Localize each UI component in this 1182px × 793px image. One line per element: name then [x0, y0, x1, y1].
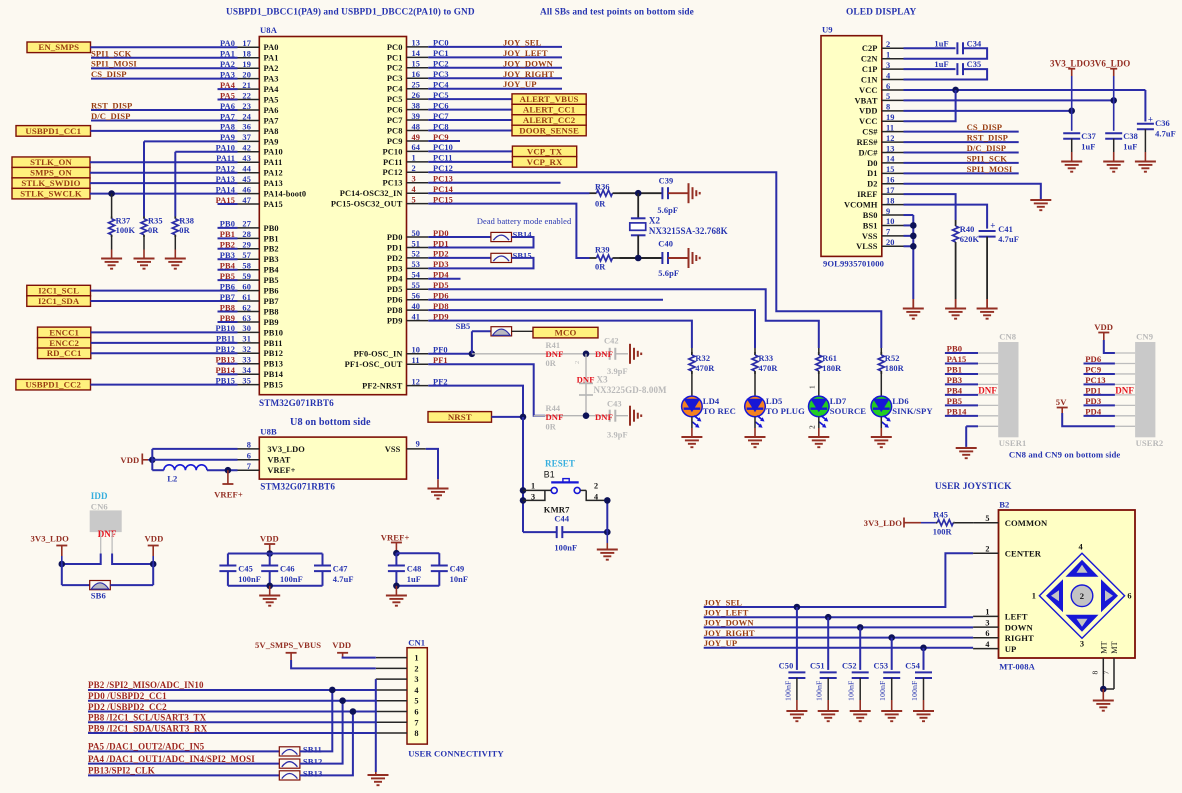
svg-text:48: 48 [412, 122, 421, 131]
svg-text:I2C1_SCL: I2C1_SCL [38, 286, 79, 296]
svg-text:SB6: SB6 [91, 591, 107, 601]
svg-text:6: 6 [414, 708, 418, 717]
svg-text:C35: C35 [967, 60, 982, 69]
svg-text:SB15: SB15 [513, 251, 532, 260]
svg-text:8: 8 [1091, 671, 1100, 675]
svg-text:OLED DISPLAY: OLED DISPLAY [846, 8, 917, 18]
svg-text:C39: C39 [659, 177, 674, 186]
svg-text:1: 1 [808, 385, 817, 389]
svg-text:63: 63 [242, 314, 251, 323]
svg-text:14: 14 [412, 49, 421, 58]
svg-text:5: 5 [886, 92, 890, 101]
svg-text:EN_SMPS: EN_SMPS [38, 42, 79, 52]
svg-text:11: 11 [886, 123, 894, 132]
svg-text:0R: 0R [595, 200, 606, 209]
svg-text:D1: D1 [867, 169, 877, 178]
svg-text:JOY_SEL: JOY_SEL [503, 37, 542, 47]
svg-text:LD4: LD4 [703, 396, 720, 406]
svg-text:PC3: PC3 [387, 74, 403, 83]
svg-text:COMMON: COMMON [1005, 518, 1048, 528]
svg-text:CN8 and CN9 on bottom side: CN8 and CN9 on bottom side [1009, 450, 1120, 460]
svg-text:PD6: PD6 [1085, 354, 1102, 364]
svg-text:PB6: PB6 [264, 287, 279, 296]
svg-text:1: 1 [886, 51, 890, 60]
svg-text:52: 52 [412, 250, 421, 259]
svg-text:ALERT_CC2: ALERT_CC2 [523, 115, 576, 125]
svg-text:CN8: CN8 [999, 332, 1017, 342]
svg-text:7: 7 [247, 462, 251, 471]
svg-text:PD2 /USBPD2_CC2: PD2 /USBPD2_CC2 [88, 702, 167, 712]
svg-text:VBAT: VBAT [267, 456, 290, 465]
svg-text:R39: R39 [595, 246, 610, 255]
svg-text:LD6: LD6 [892, 396, 909, 406]
svg-text:PB14: PB14 [264, 370, 284, 379]
svg-text:470R: 470R [759, 364, 779, 373]
svg-text:CN6: CN6 [91, 502, 109, 512]
svg-text:38: 38 [412, 101, 421, 110]
svg-text:VREF+: VREF+ [267, 466, 295, 475]
svg-text:1: 1 [531, 481, 535, 490]
svg-text:R40: R40 [960, 225, 975, 234]
svg-text:VCP_TX: VCP_TX [527, 146, 563, 156]
svg-text:LEFT: LEFT [1005, 612, 1028, 622]
svg-text:R37: R37 [116, 217, 131, 226]
svg-text:4: 4 [886, 71, 891, 80]
svg-text:3.9pF: 3.9pF [607, 431, 628, 440]
svg-text:VDD: VDD [120, 455, 139, 465]
svg-text:PA15: PA15 [947, 354, 967, 364]
svg-text:64: 64 [412, 143, 421, 152]
svg-text:CN1: CN1 [408, 638, 425, 648]
svg-text:470R: 470R [695, 364, 715, 373]
svg-text:JOY_DOWN: JOY_DOWN [503, 58, 554, 68]
svg-text:39: 39 [412, 112, 421, 121]
svg-text:USER CONNECTIVITY: USER CONNECTIVITY [408, 749, 504, 759]
svg-text:ENCC1: ENCC1 [49, 327, 79, 337]
svg-text:5.6pF: 5.6pF [657, 206, 678, 215]
svg-text:5.6pF: 5.6pF [658, 269, 679, 278]
svg-text:PD1: PD1 [387, 243, 403, 252]
svg-text:C2N: C2N [861, 55, 878, 64]
svg-text:SPI1_MOSI: SPI1_MOSI [91, 59, 137, 69]
svg-text:DNF: DNF [546, 412, 564, 422]
svg-text:JOY_UP: JOY_UP [503, 79, 537, 89]
svg-text:B2: B2 [999, 500, 1009, 510]
svg-text:NX3225GD-8.00M: NX3225GD-8.00M [594, 385, 668, 395]
svg-text:R32: R32 [695, 354, 710, 363]
svg-text:C47: C47 [333, 565, 348, 574]
svg-text:PD2: PD2 [387, 254, 403, 263]
svg-text:PC9: PC9 [387, 137, 403, 146]
svg-text:STLK_SWDIO: STLK_SWDIO [21, 178, 80, 188]
svg-text:7: 7 [414, 718, 418, 727]
svg-text:SB12: SB12 [303, 757, 323, 767]
svg-text:VCP_RX: VCP_RX [527, 157, 563, 167]
svg-text:59: 59 [242, 272, 251, 281]
svg-text:SMPS_ON: SMPS_ON [30, 168, 72, 178]
svg-text:USBPD1_DBCC1(PA9) and USBPD1_D: USBPD1_DBCC1(PA9) and USBPD1_DBCC2(PA10)… [226, 7, 475, 18]
svg-text:1uF: 1uF [407, 575, 421, 584]
svg-text:U8 on bottom side: U8 on bottom side [290, 417, 371, 428]
svg-text:21: 21 [242, 81, 251, 90]
svg-text:12: 12 [886, 134, 895, 143]
svg-text:0R: 0R [179, 226, 190, 235]
svg-text:USBPD1_CC1: USBPD1_CC1 [25, 126, 81, 136]
svg-text:PA14-boot0: PA14-boot0 [264, 190, 307, 199]
svg-text:4: 4 [1079, 543, 1084, 552]
svg-text:DNF: DNF [978, 386, 997, 396]
svg-text:3: 3 [412, 175, 416, 184]
svg-text:PC4: PC4 [387, 85, 403, 94]
svg-text:VBAT: VBAT [854, 96, 877, 105]
svg-text:100nF: 100nF [238, 575, 261, 584]
svg-text:STLK_SWCLK: STLK_SWCLK [20, 189, 82, 199]
svg-text:+: + [1148, 115, 1153, 125]
svg-text:C42: C42 [604, 337, 619, 346]
svg-text:16: 16 [886, 176, 895, 185]
svg-text:100R: 100R [933, 528, 953, 537]
svg-text:2: 2 [808, 425, 817, 429]
svg-text:Dead battery mode enabled: Dead battery mode enabled [477, 217, 572, 226]
svg-text:PD0: PD0 [387, 233, 403, 242]
svg-text:PA10: PA10 [264, 148, 283, 157]
svg-text:7: 7 [1101, 671, 1110, 675]
svg-text:57: 57 [242, 251, 251, 260]
svg-text:PB9 /I2C1_SDA/USART3_RX: PB9 /I2C1_SDA/USART3_RX [88, 723, 208, 733]
svg-text:DOOR_SENSE: DOOR_SENSE [519, 125, 579, 135]
svg-text:C40: C40 [658, 240, 673, 249]
svg-text:19: 19 [242, 60, 251, 69]
svg-text:16: 16 [412, 70, 421, 79]
svg-text:DNF: DNF [595, 349, 613, 359]
svg-text:3V3_LDO: 3V3_LDO [31, 534, 70, 544]
svg-text:2: 2 [1080, 591, 1084, 601]
svg-text:180R: 180R [822, 364, 842, 373]
svg-text:43: 43 [242, 154, 251, 163]
svg-text:1: 1 [1032, 592, 1036, 601]
svg-text:56: 56 [412, 292, 421, 301]
svg-text:PB4: PB4 [264, 266, 280, 275]
svg-text:PF2-NRST: PF2-NRST [362, 382, 403, 391]
svg-text:4: 4 [414, 686, 419, 695]
svg-text:30: 30 [242, 324, 251, 333]
svg-text:PB11: PB11 [264, 339, 283, 348]
svg-text:PC1: PC1 [387, 53, 403, 62]
svg-text:49: 49 [412, 133, 421, 142]
svg-text:VREF+: VREF+ [214, 490, 243, 500]
svg-text:VDD: VDD [260, 534, 279, 544]
svg-text:I2C1_SDA: I2C1_SDA [38, 296, 80, 306]
svg-text:PB9: PB9 [264, 318, 279, 327]
svg-text:PB5: PB5 [947, 396, 963, 406]
svg-text:VDD: VDD [332, 640, 351, 650]
svg-text:47: 47 [242, 196, 251, 205]
svg-text:RD_CC1: RD_CC1 [47, 348, 82, 358]
svg-text:PB12: PB12 [264, 349, 283, 358]
svg-text:B1: B1 [544, 470, 555, 480]
svg-text:8: 8 [247, 441, 251, 450]
svg-text:MT: MT [1110, 641, 1119, 653]
svg-text:PA5: PA5 [264, 95, 279, 104]
svg-text:3V3_LDO: 3V3_LDO [864, 518, 903, 528]
svg-text:CS_DISP: CS_DISP [967, 122, 1003, 132]
svg-text:45: 45 [242, 175, 251, 184]
svg-text:PA15: PA15 [264, 200, 283, 209]
svg-text:4.7uF: 4.7uF [998, 235, 1019, 244]
svg-text:PA3: PA3 [264, 75, 279, 84]
svg-text:VSS: VSS [385, 445, 401, 454]
svg-text:D/C_DISP: D/C_DISP [91, 111, 130, 121]
svg-text:PC2: PC2 [387, 64, 403, 73]
svg-text:3: 3 [985, 618, 989, 627]
svg-text:PA4 /DAC1_OUT1/ADC_IN4/SPI2_M: PA4 /DAC1_OUT1/ADC_IN4/SPI2_MOSI [88, 754, 255, 764]
svg-text:JOY_LEFT: JOY_LEFT [503, 48, 548, 58]
svg-text:D0: D0 [867, 159, 877, 168]
svg-text:20: 20 [242, 70, 251, 79]
svg-text:620K: 620K [960, 235, 980, 244]
svg-text:PB5: PB5 [264, 276, 279, 285]
svg-text:SPI1_MOSI: SPI1_MOSI [967, 164, 1013, 174]
svg-text:PC5: PC5 [387, 95, 403, 104]
svg-text:VDD: VDD [1094, 322, 1113, 332]
svg-text:C44: C44 [554, 515, 569, 524]
svg-text:9: 9 [886, 207, 890, 216]
svg-text:46: 46 [242, 185, 251, 194]
svg-text:C36: C36 [1155, 119, 1170, 128]
svg-text:UP: UP [1005, 644, 1017, 654]
svg-text:+: + [990, 221, 995, 231]
svg-text:55: 55 [412, 281, 421, 290]
svg-text:NX3215SA-32.768K: NX3215SA-32.768K [649, 226, 728, 236]
svg-text:PB8 /I2C1_SCL/USART3_TX: PB8 /I2C1_SCL/USART3_TX [88, 713, 207, 723]
svg-text:STLK_ON: STLK_ON [30, 157, 72, 167]
svg-text:SB14: SB14 [513, 231, 533, 240]
svg-text:ENCC2: ENCC2 [49, 338, 79, 348]
svg-text:100nF: 100nF [783, 680, 792, 701]
svg-text:6: 6 [886, 82, 890, 91]
svg-text:SB13: SB13 [303, 768, 323, 778]
svg-text:JOY_RIGHT: JOY_RIGHT [503, 69, 554, 79]
svg-text:C53: C53 [873, 662, 888, 671]
svg-text:USER JOYSTICK: USER JOYSTICK [935, 482, 1012, 492]
svg-text:DOWN: DOWN [1005, 622, 1034, 632]
svg-text:1uF: 1uF [934, 39, 948, 48]
svg-text:0R: 0R [546, 423, 557, 432]
svg-text:PC0: PC0 [387, 43, 403, 52]
svg-text:3: 3 [1080, 640, 1084, 649]
svg-text:PD4: PD4 [1085, 406, 1102, 416]
svg-text:PC14-OSC32_IN: PC14-OSC32_IN [340, 189, 403, 198]
svg-text:PB10: PB10 [264, 328, 283, 337]
svg-text:12: 12 [412, 377, 421, 386]
svg-text:CN9: CN9 [1136, 332, 1153, 342]
svg-text:PD5: PD5 [387, 285, 403, 294]
svg-text:PF1-OSC_OUT: PF1-OSC_OUT [345, 360, 403, 369]
svg-text:60: 60 [242, 282, 251, 291]
svg-text:JOY_LEFT: JOY_LEFT [704, 608, 749, 618]
svg-text:PD1: PD1 [1085, 385, 1101, 395]
svg-text:R33: R33 [759, 354, 774, 363]
svg-text:2: 2 [414, 664, 418, 673]
svg-text:PD0 /USBPD2_CC1: PD0 /USBPD2_CC1 [88, 691, 167, 701]
svg-text:15: 15 [412, 60, 421, 69]
svg-text:11: 11 [412, 356, 420, 365]
svg-text:25: 25 [412, 81, 421, 90]
svg-text:PB1: PB1 [947, 364, 963, 374]
svg-text:1: 1 [985, 608, 989, 617]
svg-text:PA5 /DAC1_OUT2/ADC_IN5: PA5 /DAC1_OUT2/ADC_IN5 [88, 742, 205, 752]
svg-text:4: 4 [412, 185, 417, 194]
svg-text:22: 22 [242, 91, 251, 100]
svg-text:32: 32 [242, 345, 251, 354]
svg-text:SB5: SB5 [456, 322, 471, 331]
svg-text:PC15-OSC32_OUT: PC15-OSC32_OUT [331, 200, 403, 209]
svg-text:STM32G071RBT6: STM32G071RBT6 [259, 398, 334, 408]
svg-text:PB3: PB3 [264, 255, 279, 264]
svg-text:PB1: PB1 [264, 234, 279, 243]
svg-text:100nF: 100nF [280, 575, 303, 584]
svg-text:41: 41 [412, 312, 421, 321]
svg-text:USBPD1_CC2: USBPD1_CC2 [25, 380, 81, 390]
svg-text:2: 2 [594, 481, 598, 490]
svg-text:PD9: PD9 [387, 317, 403, 326]
svg-text:3.9pF: 3.9pF [607, 367, 628, 376]
svg-text:PB14: PB14 [947, 406, 968, 416]
svg-text:SPI1_SCK: SPI1_SCK [91, 48, 132, 58]
svg-text:RIGHT: RIGHT [1005, 633, 1034, 643]
svg-text:C54: C54 [905, 662, 920, 671]
svg-text:61: 61 [242, 293, 251, 302]
svg-text:4.7uF: 4.7uF [333, 575, 354, 584]
svg-text:19: 19 [886, 113, 895, 122]
svg-text:PD3: PD3 [1085, 396, 1101, 406]
svg-text:28: 28 [242, 230, 251, 239]
svg-text:PB13: PB13 [264, 360, 283, 369]
svg-text:PB0: PB0 [264, 224, 279, 233]
svg-text:5: 5 [412, 195, 416, 204]
svg-text:5: 5 [985, 514, 989, 523]
svg-text:PC11: PC11 [383, 158, 402, 167]
svg-text:TO PLUG: TO PLUG [766, 406, 805, 416]
svg-text:C34: C34 [967, 39, 982, 48]
svg-text:2: 2 [574, 361, 581, 364]
svg-text:3: 3 [531, 492, 535, 501]
svg-text:PA2: PA2 [264, 64, 279, 73]
svg-text:8: 8 [414, 729, 418, 738]
svg-text:9OL9935701000: 9OL9935701000 [823, 259, 884, 269]
svg-text:ALERT_VBUS: ALERT_VBUS [520, 94, 579, 104]
svg-text:VREF+: VREF+ [381, 533, 410, 543]
svg-text:PA9: PA9 [264, 137, 279, 146]
svg-text:PC8: PC8 [387, 126, 403, 135]
svg-text:100nF: 100nF [910, 680, 919, 701]
svg-text:ALERT_CC1: ALERT_CC1 [523, 105, 575, 115]
svg-text:44: 44 [242, 165, 251, 174]
svg-text:26: 26 [412, 91, 421, 100]
svg-text:10nF: 10nF [450, 575, 469, 584]
svg-text:PD8: PD8 [387, 306, 403, 315]
svg-text:PB15: PB15 [264, 381, 283, 390]
svg-text:PA4: PA4 [264, 85, 280, 94]
svg-text:C48: C48 [407, 565, 422, 574]
svg-text:JOY_UP: JOY_UP [704, 638, 738, 648]
svg-text:3V3_LDO3V6_LDO: 3V3_LDO3V6_LDO [1050, 59, 1130, 69]
svg-text:62: 62 [242, 303, 251, 312]
svg-text:IDD: IDD [91, 491, 108, 501]
svg-text:17: 17 [886, 186, 895, 195]
svg-text:USER2: USER2 [1136, 438, 1164, 448]
svg-text:C1P: C1P [862, 65, 878, 74]
svg-text:PC6: PC6 [387, 106, 403, 115]
svg-text:TO REC: TO REC [703, 406, 736, 416]
svg-text:PD4: PD4 [387, 275, 403, 284]
svg-text:U8B: U8B [260, 427, 277, 437]
svg-text:1: 1 [412, 154, 416, 163]
svg-text:PB13/SPI2_CLK: PB13/SPI2_CLK [88, 766, 155, 776]
svg-text:31: 31 [242, 335, 251, 344]
svg-text:PC9: PC9 [1085, 364, 1101, 374]
svg-text:C50: C50 [779, 662, 794, 671]
svg-text:36: 36 [242, 123, 251, 132]
svg-text:D2: D2 [867, 180, 877, 189]
svg-text:17: 17 [242, 39, 251, 48]
svg-text:50: 50 [412, 229, 421, 238]
svg-text:20: 20 [886, 238, 895, 247]
svg-text:C46: C46 [280, 565, 295, 574]
svg-text:C52: C52 [842, 662, 857, 671]
svg-text:3: 3 [886, 61, 890, 70]
svg-text:2: 2 [412, 164, 416, 173]
svg-text:PA8: PA8 [264, 127, 279, 136]
svg-text:4.7uF: 4.7uF [1155, 130, 1176, 139]
svg-text:35: 35 [242, 376, 251, 385]
svg-text:JOY_SEL: JOY_SEL [704, 597, 743, 607]
svg-text:U9: U9 [822, 25, 833, 35]
svg-text:1uF: 1uF [934, 60, 948, 69]
svg-text:X2: X2 [649, 216, 661, 226]
svg-text:RST_DISP: RST_DISP [91, 101, 132, 111]
svg-text:100K: 100K [116, 226, 136, 235]
svg-text:C51: C51 [810, 662, 825, 671]
svg-text:27: 27 [242, 220, 251, 229]
svg-text:53: 53 [412, 260, 421, 269]
svg-text:JOY_RIGHT: JOY_RIGHT [704, 628, 755, 638]
svg-text:3: 3 [414, 675, 418, 684]
svg-text:PC13: PC13 [1085, 375, 1105, 385]
svg-text:PF0-OSC_IN: PF0-OSC_IN [354, 350, 403, 359]
svg-text:All SBs and test points on bot: All SBs and test points on bottom side [540, 8, 694, 18]
svg-text:MCO: MCO [555, 328, 577, 338]
svg-text:C41: C41 [998, 225, 1013, 234]
svg-text:54: 54 [412, 271, 421, 280]
svg-text:D/C#: D/C# [858, 148, 878, 157]
svg-text:PB0: PB0 [947, 344, 963, 354]
svg-text:PA6: PA6 [264, 106, 279, 115]
svg-text:14: 14 [886, 155, 895, 164]
svg-text:51: 51 [412, 239, 421, 248]
svg-text:R38: R38 [179, 217, 194, 226]
svg-text:CS_DISP: CS_DISP [91, 69, 127, 79]
svg-text:2: 2 [886, 40, 890, 49]
svg-text:R35: R35 [148, 217, 163, 226]
svg-text:10: 10 [886, 217, 895, 226]
svg-text:C49: C49 [450, 565, 465, 574]
svg-text:PA11: PA11 [264, 158, 283, 167]
svg-text:D/C_DISP: D/C_DISP [967, 143, 1006, 153]
svg-text:RESET: RESET [545, 459, 575, 469]
svg-text:34: 34 [242, 366, 251, 375]
svg-text:33: 33 [242, 356, 251, 365]
